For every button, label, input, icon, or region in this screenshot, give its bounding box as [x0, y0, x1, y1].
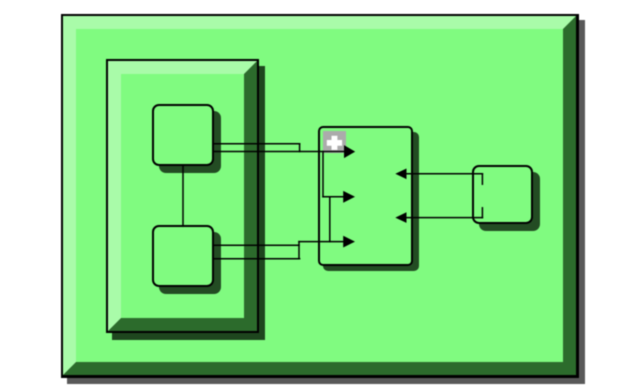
plus glyph: [327, 136, 342, 150]
outer canvas bevel: [63, 16, 576, 375]
block B (lower-left square): [152, 225, 215, 287]
arrowhead 4: [395, 169, 406, 180]
block A (upper-left square) shadow: [159, 111, 221, 172]
wire: into arrow 3: [299, 241, 345, 243]
wire: hook up inside right block: [481, 208, 483, 218]
wire: right block to arrow 4: [406, 173, 482, 175]
left panel drop shadow: [112, 66, 265, 340]
middle block shadow: [323, 132, 419, 271]
arrowhead 3: [343, 236, 355, 248]
plus badge on middle block: [323, 131, 346, 153]
arrowhead 1: [344, 145, 355, 158]
block A (upper-left square): [152, 104, 214, 165]
middle block: [318, 126, 414, 265]
left beveled panel: [106, 59, 259, 333]
wire: branch down to arrow 3: [329, 197, 331, 242]
arrowhead 2: [343, 191, 355, 203]
wire: hook down inside right block: [481, 174, 483, 184]
wire: block A to block B vertical: [182, 165, 184, 226]
wire: jog down: [299, 144, 301, 152]
wire: into arrow 1: [213, 151, 345, 153]
wire: block A out1 horizontal: [213, 143, 300, 145]
right block: [472, 165, 533, 225]
outer canvas drop shadow (gray): [67, 20, 585, 384]
wire: right block to arrow 5: [406, 217, 482, 219]
block B (lower-left square) shadow: [159, 232, 222, 294]
wire: jog up from block B: [298, 242, 300, 259]
wire: into arrow 2: [323, 196, 344, 198]
arrowhead 5: [395, 212, 406, 223]
right block shadow: [479, 172, 540, 232]
wire: block B out1 horizontal: [213, 244, 299, 246]
outer beveled canvas: [61, 14, 579, 378]
wire: block B out2 horizontal: [213, 258, 300, 260]
panel bevel: [108, 61, 257, 331]
wire: branch down to arrow 2: [322, 152, 324, 197]
